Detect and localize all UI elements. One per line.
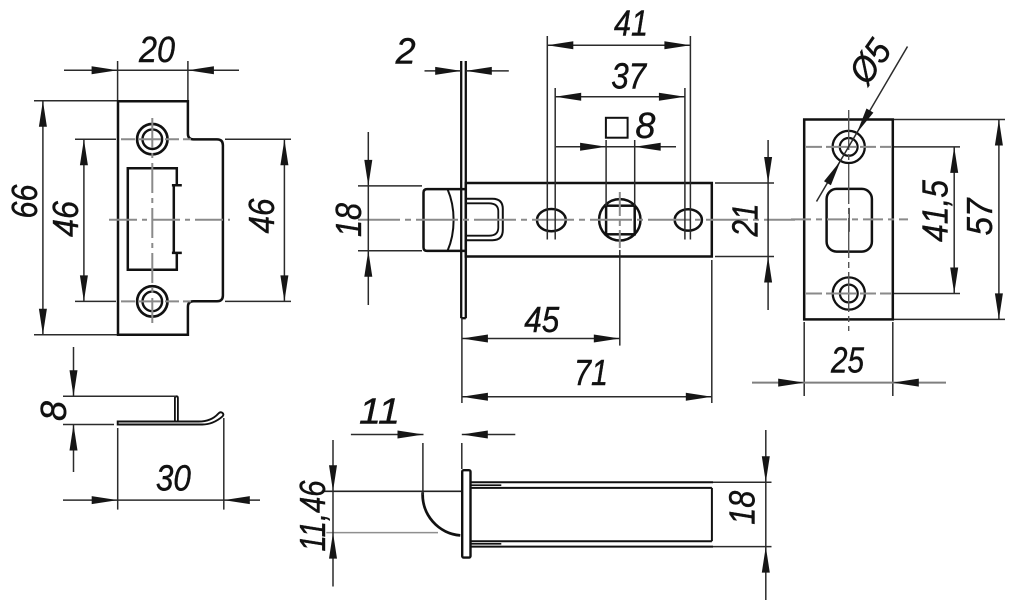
svg-text:46: 46 — [45, 200, 86, 237]
dimension 57 line and arrows — [995, 120, 1003, 320]
dimension 11,46 extension lines — [326, 532, 438, 534]
dimension text 37 — [611, 56, 648, 97]
dimension 41,5 line and arrows — [950, 147, 958, 294]
svg-text:71: 71 — [574, 352, 608, 393]
diameter 5 leader line — [817, 47, 908, 202]
center line vertical (view 1) — [151, 118, 153, 323]
tail bottom line (view 5) — [470, 543, 501, 545]
dimension 18 line and arrows (view 5) — [762, 430, 770, 600]
center line horizontal (view 2) — [358, 219, 795, 221]
center line top hole (view 3) — [806, 146, 892, 148]
bolt nose curve (view 5) — [423, 492, 461, 535]
svg-text:66: 66 — [4, 184, 45, 219]
spindle hole circle — [599, 199, 640, 240]
dimension 18 extension lines (view 5: outer lines extended) — [0, 0, 1, 1]
dimension text 2 — [395, 31, 416, 72]
dimension text 18 view2 — [328, 203, 369, 237]
dimension 30 line and arrows — [63, 496, 260, 504]
dimension text 66 — [4, 184, 45, 219]
faceplate edge-on (view 5) — [462, 470, 470, 557]
dimension 25 line and arrows — [752, 379, 946, 387]
svg-text:2: 2 — [395, 31, 416, 72]
latch case rectangle — [466, 183, 712, 257]
dimension text 57 — [959, 197, 1000, 236]
svg-text:8: 8 — [33, 401, 74, 421]
latch faceplate edge-on (double line) — [461, 61, 466, 318]
dimension text 25 — [830, 340, 865, 381]
svg-text:8: 8 — [635, 105, 655, 146]
dimension text 41,5 — [915, 179, 956, 242]
dimension 66 line and arrows — [39, 101, 47, 335]
svg-text:45: 45 — [524, 299, 560, 340]
dimension 30 extension lines — [118, 418, 224, 510]
dimension 21 extension lines — [715, 183, 774, 257]
slot hole right (view 2) — [675, 209, 702, 230]
dimension text 11 — [359, 391, 400, 432]
latch bolt tail inner — [466, 203, 499, 235]
dimension 8 extension lines (profile) — [63, 396, 176, 424]
center line through top hole (view 1) — [121, 138, 191, 140]
tube outer top line (view 5) — [470, 481, 771, 483]
faceplate lower extension line — [461, 318, 463, 403]
bore rectangle (view 5) — [470, 488, 712, 541]
strike plate front view outline — [118, 101, 223, 335]
faceplate front outline — [804, 120, 893, 320]
dimension 25 extension lines — [804, 322, 893, 396]
dimension 18 line and arrows (view 2) — [364, 132, 372, 305]
dimension 11 line and arrows — [351, 431, 515, 439]
dimension text 46 right — [241, 198, 282, 234]
dimension 66 extension lines — [34, 101, 117, 335]
dimension 71 line and arrows — [462, 393, 712, 401]
dimension text 21 — [725, 204, 766, 238]
dimension text 8 profile — [33, 401, 74, 421]
dimension 41 line and arrows — [547, 41, 690, 49]
bolt top edge with extension (view 5) — [322, 490, 463, 492]
tube outer bottom line (view 5) — [470, 546, 771, 548]
svg-text:37: 37 — [611, 56, 648, 97]
svg-text:11: 11 — [359, 391, 400, 432]
dimension 11,46 line and arrows — [329, 440, 337, 587]
dimension 11 extension lines — [423, 443, 462, 495]
center line through bottom hole (view 1) — [121, 300, 191, 302]
dimension text 20 — [138, 29, 175, 70]
screw hole bottom (view 3) — [833, 277, 865, 309]
center line vertical spindle hole — [619, 192, 621, 248]
dimension 46 right line and arrows — [280, 139, 288, 301]
screw hole top (view 1) — [137, 124, 167, 154]
dimension text 8 spindle — [635, 105, 655, 146]
spindle square hole — [606, 206, 635, 235]
dimension text 46 left — [45, 200, 86, 237]
svg-text:25: 25 — [830, 340, 865, 381]
dimension 8 extension lines (spindle) — [606, 140, 635, 206]
svg-text:30: 30 — [156, 458, 191, 499]
latch bolt tail outer — [466, 199, 503, 241]
strike plate latch opening with bent tab — [128, 168, 182, 269]
dimension 20 line and arrows — [64, 66, 239, 74]
dimension 18 extension lines (view 2) — [358, 186, 422, 251]
diameter 5 leader arrows — [824, 109, 873, 186]
dimension 41,5 extension lines — [894, 147, 960, 294]
tail top line (view 5) — [470, 484, 501, 486]
screw hole bottom (view 1) — [137, 286, 167, 316]
plate profile tab — [175, 396, 178, 421]
dimension 41 extension lines — [547, 36, 690, 240]
latch hole center mark — [848, 208, 850, 232]
center line horizontal (view 3) — [791, 218, 908, 220]
svg-text:41,5: 41,5 — [915, 179, 956, 242]
dimension 8 arrows (profile) — [70, 347, 78, 472]
svg-text:20: 20 — [138, 29, 175, 70]
dimension text 45 — [524, 299, 560, 340]
dimension text 71 — [574, 352, 608, 393]
dimension 45 extension line — [619, 250, 621, 346]
dimension 45 line and arrows — [462, 335, 620, 343]
dimension 2 line and arrows — [425, 67, 509, 75]
square symbol for 8 — [606, 118, 628, 138]
center line horizontal mid (view 1) — [109, 219, 230, 221]
dimension text 41 — [614, 3, 648, 44]
dimension 37 extension lines — [555, 88, 685, 240]
dimension 46 left extension lines — [75, 139, 116, 301]
case right extension line — [711, 260, 713, 403]
svg-text:46: 46 — [241, 198, 282, 234]
dimension text 11,46 — [292, 480, 333, 552]
dimension text 30 — [156, 458, 191, 499]
dimension 46 left line and arrows — [80, 139, 88, 301]
latch bolt head — [424, 189, 466, 251]
dimension 20 extension lines — [118, 61, 188, 100]
screw hole top (view 3) — [833, 131, 865, 163]
svg-text:18: 18 — [722, 491, 763, 525]
center line vertical (view 3) — [848, 110, 850, 331]
svg-text:57: 57 — [959, 197, 1000, 236]
dimension 37 line and arrows — [555, 93, 685, 101]
dimension text 18 view5 — [722, 491, 763, 525]
latch bolt bevel curve — [448, 189, 454, 251]
plate profile body with curved lip — [118, 412, 224, 424]
dimension 8 line and arrows (spindle) — [556, 143, 676, 151]
dimension text diameter 5 — [840, 31, 900, 92]
svg-text:21: 21 — [725, 204, 766, 238]
slot hole left (view 2) — [537, 209, 566, 231]
svg-text:18: 18 — [328, 203, 369, 237]
svg-text:11,46: 11,46 — [292, 480, 333, 552]
dimension 46 right extension lines — [225, 139, 291, 301]
dimension 57 extension lines — [894, 120, 1005, 320]
latch bolt hole rounded square — [827, 189, 872, 252]
dimension 21 line and arrows — [764, 140, 772, 310]
center line bottom hole (view 3) — [806, 293, 892, 295]
svg-text:41: 41 — [614, 3, 648, 44]
